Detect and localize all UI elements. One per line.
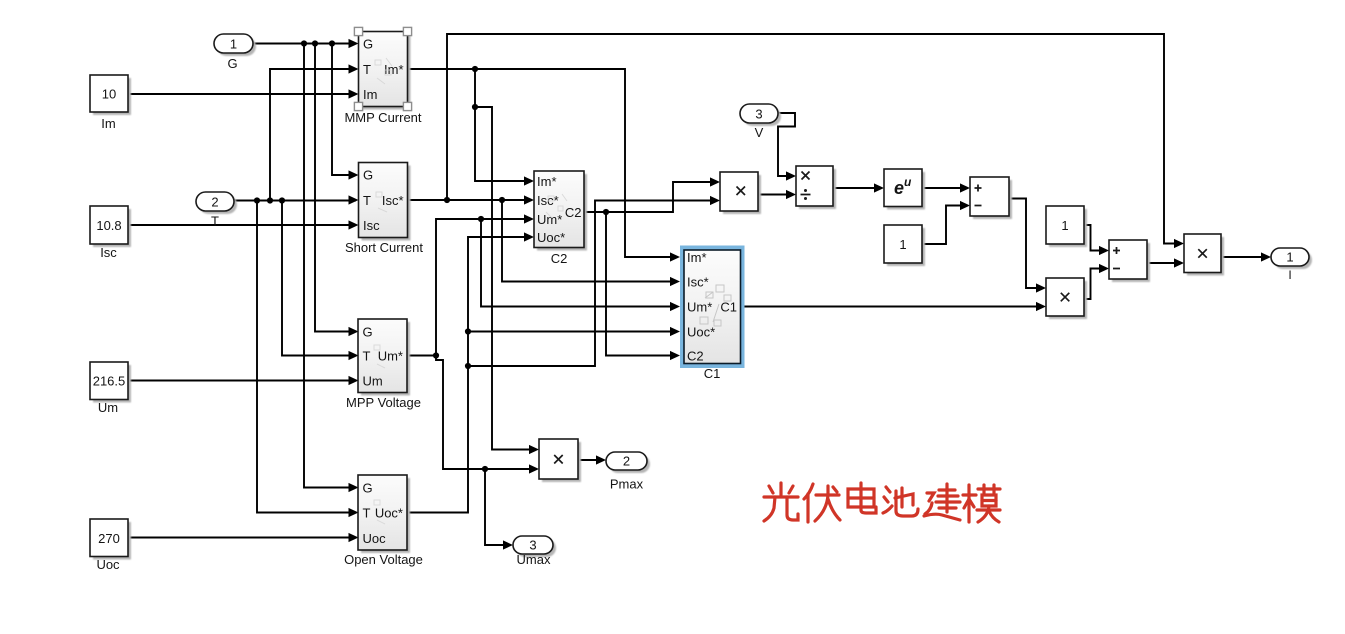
char 光 — [764, 483, 798, 521]
block sum2 (+ -) — [1109, 240, 1150, 282]
char 伏 — [804, 484, 840, 522]
svg-text:C1: C1 — [720, 300, 737, 315]
block Short Current subsystem — [359, 163, 411, 241]
svg-text:MMP Current: MMP Current — [344, 110, 421, 125]
char 电 — [848, 483, 876, 513]
char 池 — [883, 487, 918, 516]
svg-text:Isc*: Isc* — [382, 193, 404, 208]
svg-text:1: 1 — [899, 237, 906, 252]
ghost preview marks inside C1 — [700, 285, 731, 326]
wire net Um*: MPP Voltage out to C2 Um*, C1 Um*, Pmax multiply in2, Umax — [407, 219, 677, 545]
wire multiply2 to sum2 minus — [1084, 269, 1106, 300]
svg-text:I: I — [1288, 268, 1291, 282]
wire exp to sum1 plus — [922, 187, 967, 189]
junction dots on net G — [301, 40, 335, 46]
wire net V: input 3 to divide in1 — [778, 113, 795, 176]
svg-text:C2: C2 — [565, 205, 582, 220]
svg-text:Um*: Um* — [537, 212, 562, 227]
block exp e^u — [884, 169, 925, 210]
svg-text:MPP Voltage: MPP Voltage — [346, 395, 421, 410]
svg-text:G: G — [363, 168, 373, 183]
svg-text:Im*: Im* — [687, 250, 707, 265]
svg-text:1: 1 — [230, 37, 237, 52]
svg-text:10.8: 10.8 — [96, 218, 121, 233]
svg-text:Uoc*: Uoc* — [375, 506, 403, 521]
block divide — [796, 166, 836, 209]
svg-text:T: T — [363, 193, 371, 208]
svg-text:Im: Im — [363, 87, 377, 102]
svg-text:Uoc*: Uoc* — [687, 325, 715, 340]
junction dots on net Isc* — [444, 197, 505, 203]
svg-text:Im*: Im* — [537, 174, 557, 189]
junction dots on net Im* — [472, 66, 478, 110]
wire divide to exp — [833, 187, 881, 189]
block multiply1 (product) — [720, 172, 761, 214]
svg-text:Short Current: Short Current — [345, 240, 423, 255]
block MPP Voltage subsystem — [358, 319, 410, 396]
svg-text:216.5: 216.5 — [93, 374, 126, 389]
svg-text:270: 270 — [98, 531, 120, 546]
junction dot on net C2 — [603, 209, 609, 215]
input port oval 3 (V) — [740, 104, 781, 126]
junction dots on net Uoc* — [465, 328, 471, 369]
svg-text:1: 1 — [1061, 218, 1068, 233]
svg-text:e: e — [894, 178, 904, 198]
svg-text:Im: Im — [101, 116, 115, 131]
svg-text:G: G — [363, 37, 373, 52]
svg-text:Uoc: Uoc — [96, 557, 120, 572]
block Open Voltage subsystem — [358, 475, 410, 553]
selection handles on MMP Current — [354, 27, 411, 110]
selection frame of C1 (blue) — [680, 246, 745, 369]
wire Pmax multiply to output 2 Pmax — [578, 459, 603, 461]
junction dots on net Um* — [433, 216, 488, 472]
block C2 subsystem — [534, 171, 587, 251]
svg-text:Umax: Umax — [517, 552, 551, 567]
output port oval 1 (I) — [1271, 248, 1312, 269]
block constant 216.5 — [90, 362, 131, 403]
svg-text:3: 3 — [755, 107, 762, 122]
svg-text:Isc*: Isc* — [687, 275, 709, 290]
svg-text:Um*: Um* — [378, 349, 403, 364]
svg-text:2: 2 — [211, 195, 218, 210]
wire sum1 to multiply2 in1 — [1009, 199, 1043, 289]
block C1 subsystem — [684, 250, 741, 364]
svg-text:T: T — [363, 62, 371, 77]
char 建 — [924, 484, 960, 520]
svg-text:C2: C2 — [551, 251, 568, 266]
svg-text:Isc: Isc — [363, 218, 380, 233]
svg-text:Um*: Um* — [687, 300, 712, 315]
wire multiply1 to divide in2 — [758, 194, 793, 196]
svg-text:G: G — [227, 56, 237, 71]
svg-text:Open Voltage: Open Voltage — [344, 552, 423, 567]
svg-text:1: 1 — [1286, 250, 1293, 265]
wire constant 216.5 to MPP Voltage Um — [128, 380, 356, 382]
wire C1 out to multiply2 in2 — [745, 306, 1044, 308]
svg-text:G: G — [363, 481, 373, 496]
block constant 1b — [1046, 206, 1087, 247]
svg-text:2: 2 — [623, 454, 630, 469]
title 光伏电池建模 (hand-drawn strokes) — [764, 483, 1000, 522]
input port oval 1 (G) — [214, 34, 256, 56]
svg-text:Pmax: Pmax — [610, 477, 644, 492]
wire final multiply to output 1 I — [1221, 256, 1268, 258]
wire constant 1b to sum2 plus — [1084, 225, 1106, 251]
svg-text:Um: Um — [98, 400, 118, 415]
svg-text:C2: C2 — [687, 349, 704, 364]
block Pmax multiply — [539, 439, 581, 482]
wire net Isc*: Short Current out to C2 Isc*, C1 Isc*, final multiply in1 (top long wire) — [408, 34, 1182, 282]
wire constant 10 to MMP Current Im — [128, 93, 356, 95]
svg-text:Uoc*: Uoc* — [537, 230, 565, 245]
block final multiply — [1184, 234, 1224, 276]
junction dots on net T — [254, 197, 285, 203]
block multiply2 — [1046, 278, 1087, 319]
block sum1 (+ -) — [970, 177, 1012, 219]
svg-text:10: 10 — [102, 87, 116, 102]
svg-text:Isc: Isc — [100, 245, 117, 260]
block constant 10.8 — [90, 206, 131, 247]
wire sum2 to final multiply in2 — [1147, 262, 1181, 264]
block constant 1a — [884, 225, 925, 266]
wire net Uoc*: Open Voltage out to C2 Uoc*, C1 Uoc*, multiply1 in2 — [407, 201, 717, 513]
wire constant 10.8 to Short Current Isc — [128, 224, 356, 226]
svg-text:T: T — [211, 214, 219, 229]
input arrows at block ports — [349, 39, 1272, 550]
wire constant 1a to sum1 minus — [922, 206, 967, 245]
svg-text:u: u — [904, 175, 912, 189]
svg-text:T: T — [363, 349, 371, 364]
svg-text:G: G — [363, 325, 373, 340]
input port oval 2 (T) — [196, 192, 237, 214]
svg-text:3: 3 — [529, 538, 536, 553]
block constant 10 — [90, 75, 131, 115]
block MMP Current subsystem — [359, 32, 411, 110]
wire constant 270 to Open Voltage Uoc — [128, 537, 356, 539]
output port oval 3 (Umax) — [513, 536, 556, 557]
block constant 270 — [90, 519, 131, 560]
wire net G: input 1 to MMP Current G, Short Current G, MPP Voltage G, Open Voltage G — [253, 44, 356, 488]
svg-text:V: V — [755, 125, 764, 140]
svg-text:T: T — [363, 506, 371, 521]
output port oval 2 (Pmax) — [606, 452, 650, 473]
char 模 — [963, 485, 1000, 522]
svg-text:Um: Um — [363, 374, 383, 389]
wire net T: input 2 to Short Current T, MMP Current T, MPP Voltage T, Open Voltage T — [234, 69, 356, 513]
svg-text:Uoc: Uoc — [363, 531, 387, 546]
wire net Im*: MMP Current out to C1 Im*, C2 Im*, Pmax multiply in1 — [408, 69, 678, 450]
svg-text:C1: C1 — [704, 366, 721, 381]
wire net C2: C2 out to multiply1 in1 and C1 C2 input — [584, 182, 717, 356]
